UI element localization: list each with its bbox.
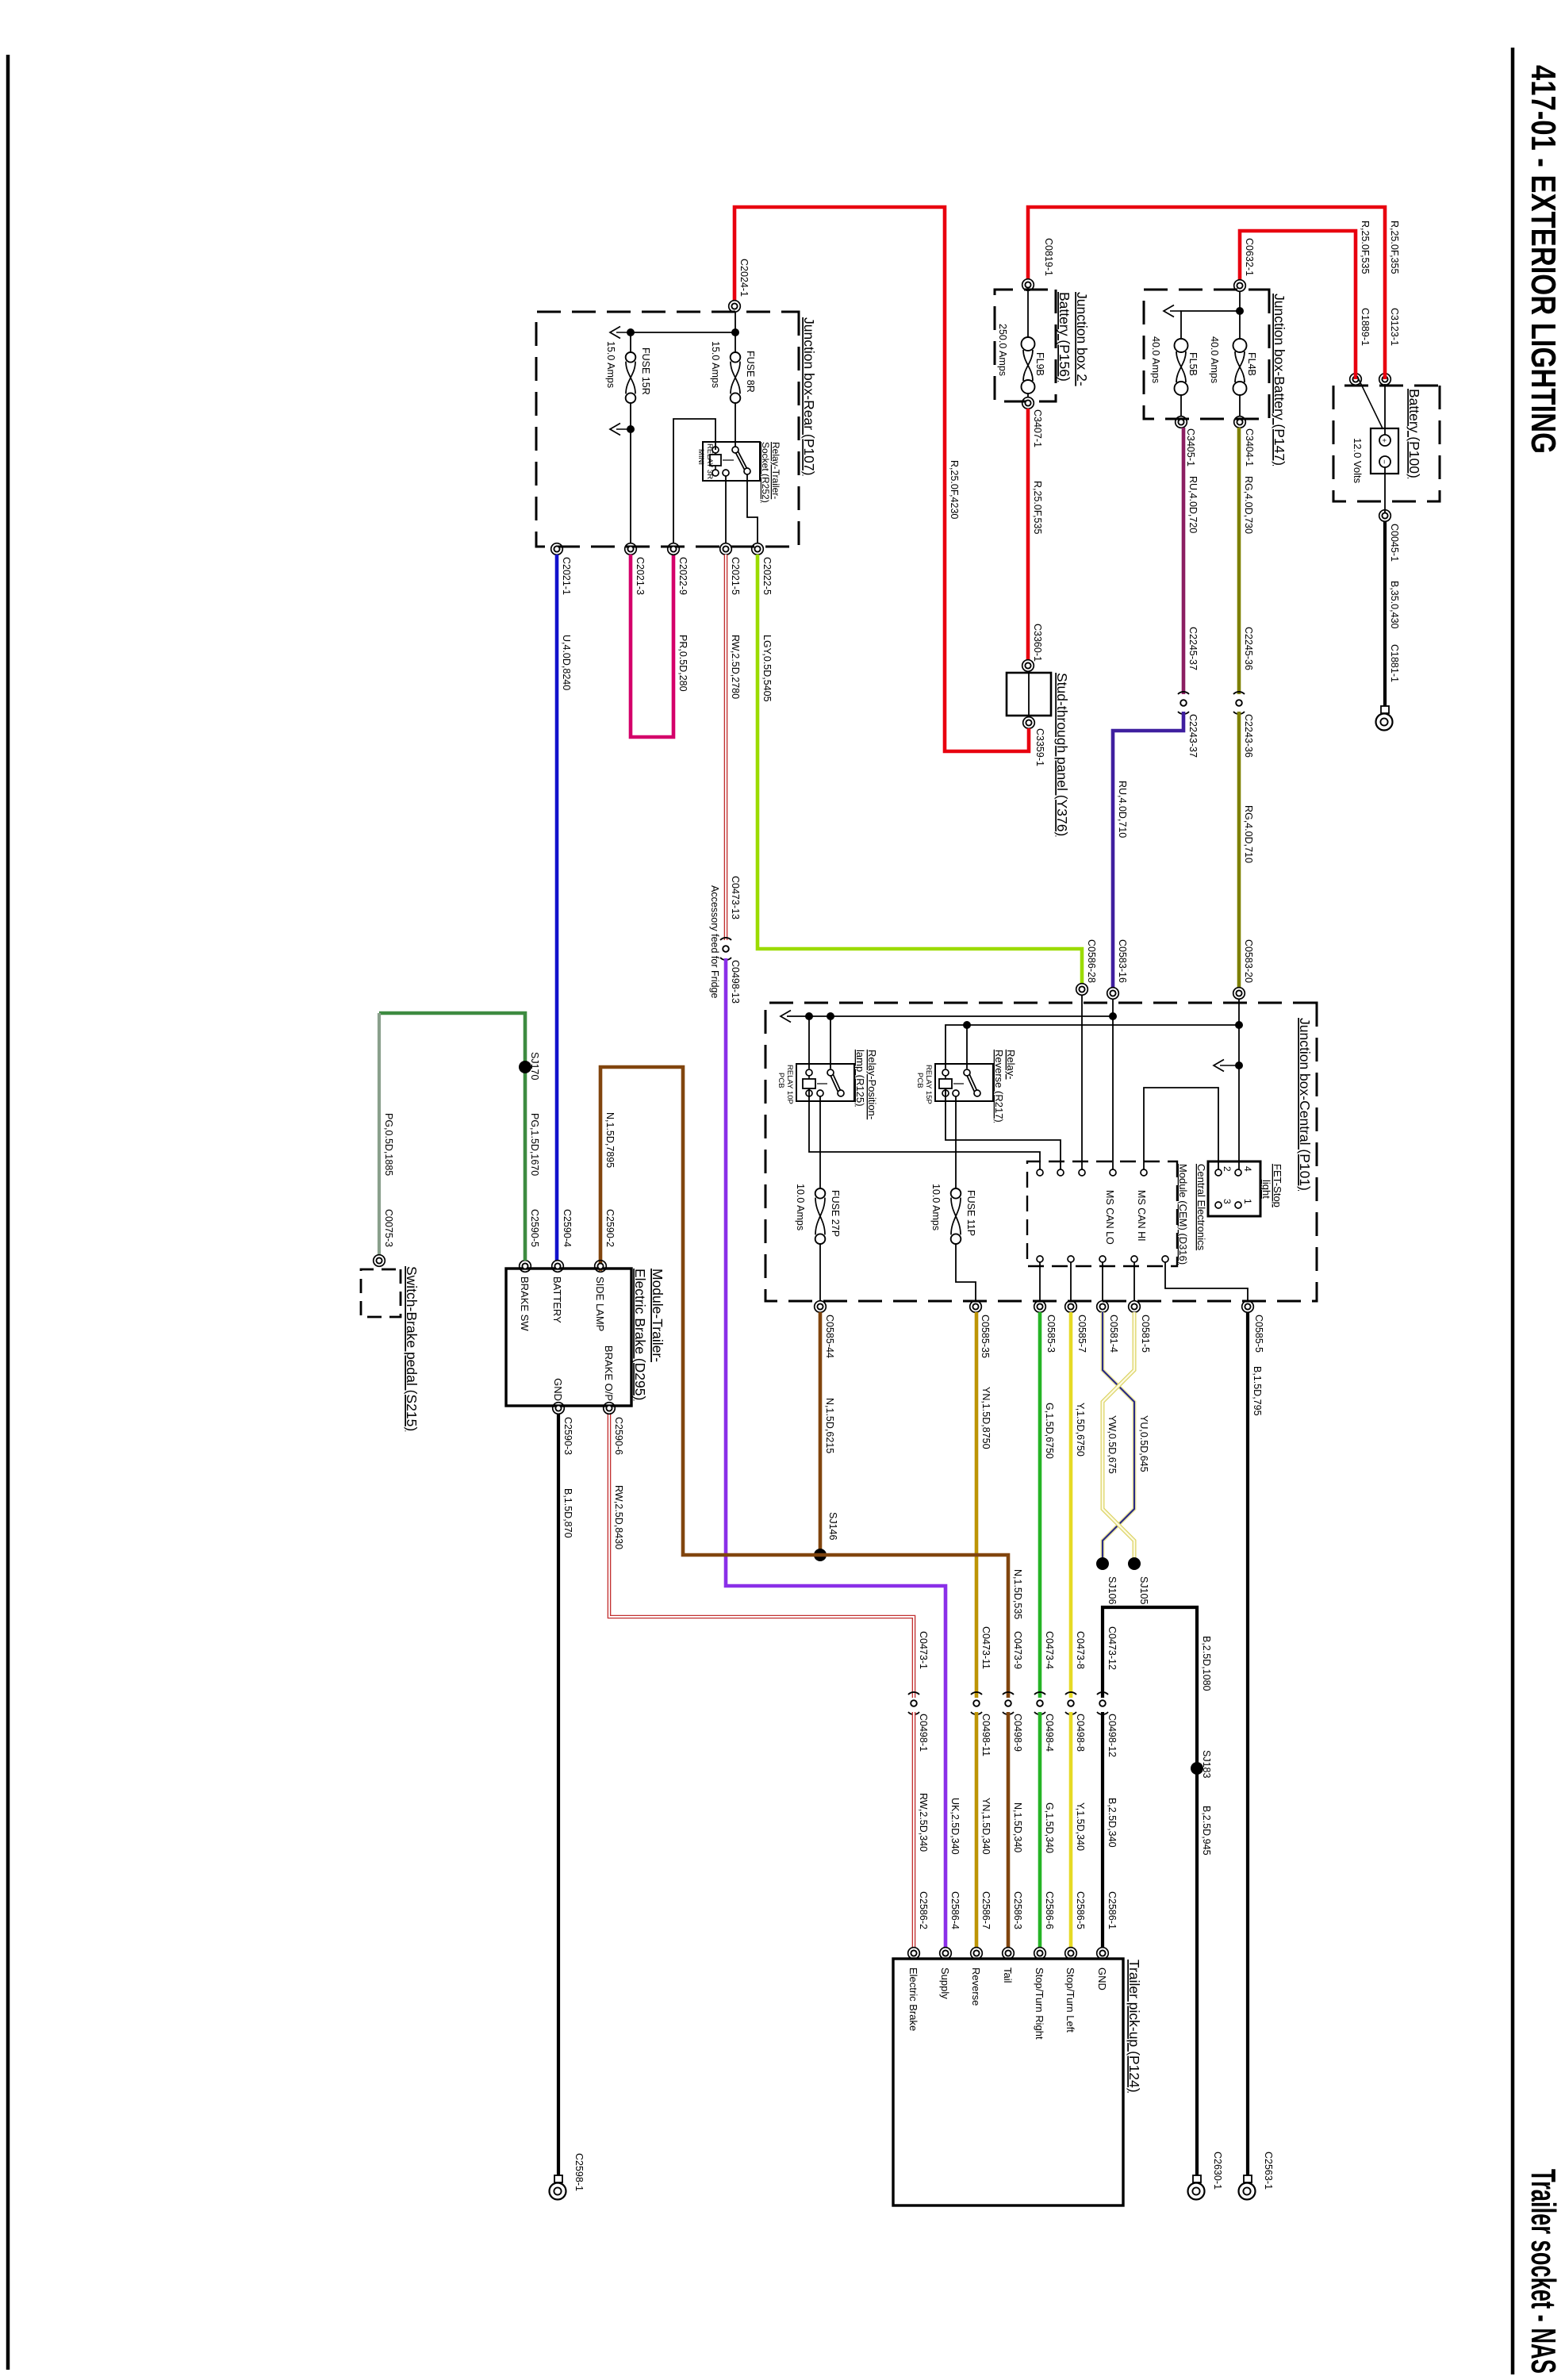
footer rule <box>6 55 10 2370</box>
wire RW,2.5D,340 <box>912 1712 916 1948</box>
fuse FUSE 27P <box>815 1188 826 1244</box>
label C0498-4 <box>1044 1714 1055 1752</box>
pin label GND <box>1096 1967 1108 1990</box>
label 40.0 Amps FL5B <box>1150 336 1161 383</box>
label 10.0 Amps fuse 27P <box>795 1184 806 1230</box>
svg-text:C0473-13: C0473-13 <box>730 876 741 919</box>
svg-text:MINI: MINI <box>696 449 705 465</box>
svg-text:C2590-5: C2590-5 <box>529 1209 540 1247</box>
label C2590-6 <box>613 1417 624 1455</box>
svg-text:PCB: PCB <box>915 1073 924 1088</box>
connector C2586-1 <box>1097 1948 1109 1960</box>
svg-text:C0583-16: C0583-16 <box>1117 939 1128 983</box>
connector C0585-35 <box>970 1301 982 1313</box>
label FUSE 27P <box>830 1190 841 1237</box>
svg-text:SJ183: SJ183 <box>1201 1750 1212 1778</box>
label C2022-9 <box>677 557 689 595</box>
label Y,1.5D,6750 <box>1075 1403 1086 1457</box>
label C0498-1 <box>918 1714 929 1752</box>
FET pin number 1 <box>1242 1199 1253 1204</box>
svg-text:Accessory feed for Fridge: Accessory feed for Fridge <box>709 885 720 998</box>
branch to FL5B <box>1181 311 1240 339</box>
inline connector C2245-36 C2243-36 <box>1233 692 1245 714</box>
svg-text:G,1.5D,6750: G,1.5D,6750 <box>1044 1403 1055 1459</box>
label FL4B <box>1246 352 1257 376</box>
svg-text:C2563-1: C2563-1 <box>1263 2152 1274 2190</box>
label C2024-1 <box>738 259 750 297</box>
svg-text:R,25.0F,355: R,25.0F,355 <box>1389 221 1400 274</box>
wire FUSE 11P to C0585-35 <box>956 1244 976 1301</box>
label lamp (R125) <box>854 1050 866 1107</box>
svg-text:MS CAN LO: MS CAN LO <box>1104 1190 1115 1245</box>
svg-text:FL9B: FL9B <box>1034 352 1045 376</box>
label C2586-1 <box>1107 1891 1118 1929</box>
label C0075-3 <box>383 1209 394 1247</box>
svg-text:C3359-1: C3359-1 <box>1034 728 1045 766</box>
relay R125 contact arm <box>830 1073 841 1092</box>
inline connector C0473-13 C0498-13 <box>720 938 731 960</box>
wire to C2021-3 <box>630 429 631 543</box>
label PG,1.5D,1670 <box>529 1113 540 1176</box>
wire FUSE 8R to relay R252 <box>735 403 736 447</box>
svg-text:417-01 - EXTERIOR LIGHTING: 417-01 - EXTERIOR LIGHTING <box>1524 65 1563 454</box>
connector C3360-1 <box>1022 660 1034 672</box>
svg-text:UK,2.5D,340: UK,2.5D,340 <box>949 1798 961 1855</box>
svg-text:BRAKE O/P: BRAKE O/P <box>603 1345 615 1401</box>
svg-text:C0473-12: C0473-12 <box>1107 1626 1118 1670</box>
wire Y,1.5D,340 <box>1069 1712 1073 1948</box>
connector C0585-3 <box>1034 1301 1046 1313</box>
label B,35.0,430 <box>1389 581 1400 629</box>
svg-text:Switch-Brake pedal (S215): Switch-Brake pedal (S215) <box>404 1266 420 1431</box>
svg-text:C2586-5: C2586-5 <box>1075 1891 1086 1929</box>
pin label Electric Brake <box>907 1967 919 2031</box>
svg-text:1: 1 <box>1242 1199 1253 1204</box>
arrow continuation after fuse 15R <box>610 424 631 436</box>
svg-text:FL4B: FL4B <box>1246 352 1257 376</box>
relay R252 pins <box>712 447 750 476</box>
svg-text:40.0 Amps: 40.0 Amps <box>1209 336 1220 383</box>
connector C3407-1 <box>1022 397 1034 409</box>
svg-text:RG,4.0D,730: RG,4.0D,730 <box>1243 476 1254 534</box>
svg-text:Battery (P156): Battery (P156) <box>1057 292 1072 382</box>
FET-Stop light box <box>1208 1161 1260 1216</box>
svg-text:Stop/Turn Right: Stop/Turn Right <box>1034 1967 1045 2040</box>
junction dot after fuse 15R <box>627 425 635 433</box>
connector C2586-4 <box>940 1948 952 1960</box>
svg-text:C2586-2: C2586-2 <box>918 1891 929 1929</box>
trailer pick-up P124 box <box>893 1959 1123 2205</box>
fuse FL5B <box>1175 339 1188 395</box>
svg-text:C2590-4: C2590-4 <box>562 1209 573 1247</box>
label U,4.0D,8240 <box>561 635 572 690</box>
label C0498-11 <box>980 1714 992 1756</box>
label C0498-13 <box>730 960 741 1004</box>
CEM bottom pins <box>1037 1256 1168 1262</box>
svg-text:YU,0.5D,645: YU,0.5D,645 <box>1138 1415 1149 1472</box>
label C3360-1 <box>1032 624 1043 662</box>
svg-text:C2024-1: C2024-1 <box>738 259 750 297</box>
svg-text:C0473-9: C0473-9 <box>1012 1631 1023 1669</box>
wire UK accessory feed <box>726 958 946 1948</box>
label 40.0 Amps FL4B <box>1209 336 1220 383</box>
svg-text:C2243-36: C2243-36 <box>1243 714 1254 758</box>
label FL5B <box>1187 352 1199 376</box>
junction box 2-Battery P156 box <box>995 290 1056 401</box>
svg-text:C2022-5: C2022-5 <box>761 557 773 595</box>
label R,25.0F,4230 <box>949 460 960 519</box>
label N,1.5D,7895 <box>604 1112 616 1168</box>
wire FL4B to C3404-1 <box>1239 395 1241 416</box>
svg-text:Module (CEM) (D316): Module (CEM) (D316) <box>1177 1164 1189 1265</box>
wire CEM to C0585-3 <box>1039 1262 1041 1301</box>
label FUSE 11P <box>965 1190 976 1236</box>
label B,1.5D,870 <box>562 1488 573 1538</box>
svg-text:C0498-8: C0498-8 <box>1075 1714 1086 1752</box>
relay R252 coil <box>710 455 734 466</box>
svg-text:RG,4.0D,710: RG,4.0D,710 <box>1243 805 1254 863</box>
svg-text:FET-Stop: FET-Stop <box>1272 1164 1283 1207</box>
FET pin number 3 <box>1222 1199 1233 1204</box>
label RU,4.0D,720 <box>1187 476 1199 533</box>
bus B vertical <box>946 1025 1239 1069</box>
svg-text:C0585-35: C0585-35 <box>980 1315 991 1358</box>
label C0583-16 <box>1117 939 1128 983</box>
svg-text:BATTERY: BATTERY <box>551 1276 563 1323</box>
page subtitle Trailer socket - NAS <box>1524 2169 1563 2374</box>
FET pin number 2 <box>1222 1166 1233 1172</box>
label C1889-1 <box>1360 308 1371 346</box>
wire C0583-20 to FET pin 4 <box>1238 999 1240 1169</box>
label 15.0 Amps fuse 8R <box>710 341 721 388</box>
label Battery (P156) <box>1057 292 1072 382</box>
svg-text:PG,1.5D,1670: PG,1.5D,1670 <box>529 1113 540 1176</box>
label C2590-4 <box>562 1209 573 1247</box>
label PCB R217 <box>915 1073 924 1088</box>
svg-text:C2590-6: C2590-6 <box>613 1417 624 1455</box>
pin label GND <box>552 1378 564 1401</box>
wire R,25.0F,535 to C0632-1 <box>1240 231 1356 379</box>
svg-text:C2243-37: C2243-37 <box>1187 714 1199 758</box>
label C0473-1 <box>918 1631 929 1669</box>
svg-text:C2598-1: C2598-1 <box>573 2153 585 2191</box>
svg-text:Supply: Supply <box>939 1967 951 1999</box>
relay R252 contact arm <box>735 450 748 471</box>
relay R252 box <box>703 442 760 481</box>
connector C3404-1 <box>1234 416 1246 428</box>
battery P100 box <box>1333 386 1440 501</box>
ground C2630-1 <box>1188 2175 1205 2200</box>
connector C2022-5 <box>752 543 764 555</box>
label SJ170 <box>529 1052 540 1080</box>
wire G,1.5D,340 <box>1038 1712 1042 1948</box>
connector C0585-44 <box>815 1301 827 1313</box>
svg-text:+: + <box>1379 438 1388 443</box>
label C2586-5 <box>1075 1891 1086 1929</box>
arrow continuation below FL5B junction <box>1164 305 1181 317</box>
label R,25.0F,535 (stud) <box>1032 481 1043 534</box>
label Accessory feed for Fridge <box>709 885 720 998</box>
wire bus A to R125 coil <box>808 1016 810 1069</box>
wire YW,0.5D,675 <box>1103 1312 1134 1560</box>
connector C0045-1 <box>1379 510 1391 522</box>
connector C3359-1 <box>1023 717 1035 729</box>
wire C0632-1 to FL4B <box>1239 291 1241 339</box>
connector C2586-5 <box>1065 1948 1077 1960</box>
svg-text:C2586-1: C2586-1 <box>1107 1891 1118 1929</box>
label YW,0.5D,675 <box>1107 1415 1118 1474</box>
wire PG,0.5D,1885 <box>378 1013 381 1255</box>
svg-text:FUSE 11P: FUSE 11P <box>965 1190 976 1236</box>
pin label BATTERY <box>551 1276 563 1323</box>
label RG,4.0D,710 <box>1243 805 1254 863</box>
svg-text:Socket (R252): Socket (R252) <box>760 442 771 503</box>
junction dot bus B to relay contact <box>963 1021 971 1029</box>
svg-text:C0473-4: C0473-4 <box>1044 1631 1055 1669</box>
svg-text:Trailer pick-up (P124): Trailer pick-up (P124) <box>1126 1960 1142 2093</box>
svg-text:C2586-6: C2586-6 <box>1044 1891 1055 1929</box>
svg-text:N,1.5D,7895: N,1.5D,7895 <box>604 1112 616 1168</box>
label RW,2.5D,2780 <box>730 635 741 699</box>
wire YN,1.5D,8750 <box>975 1312 979 1698</box>
svg-text:C0585-5: C0585-5 <box>1253 1315 1264 1353</box>
label SJ146 <box>827 1512 838 1540</box>
svg-text:C0586-28: C0586-28 <box>1086 939 1097 983</box>
label C0819-1 <box>1043 238 1054 276</box>
label LGY,0.5D,5405 <box>761 635 773 702</box>
svg-text:4: 4 <box>1242 1166 1253 1172</box>
svg-text:10.0 Amps: 10.0 Amps <box>930 1184 942 1230</box>
svg-text:C3405-1: C3405-1 <box>1185 428 1196 466</box>
connector C1889-1 <box>1350 374 1362 386</box>
svg-text:C2021-5: C2021-5 <box>730 557 741 595</box>
relay R125 coil <box>803 1079 827 1088</box>
junction dot bus B top <box>1235 1021 1243 1029</box>
wire Y,1.5D,6750 <box>1069 1312 1073 1698</box>
connector C2590-3 <box>553 1403 565 1415</box>
relay R217 box <box>935 1064 993 1101</box>
label Reverse (R217) <box>993 1050 1005 1123</box>
svg-text:Trailer socket - NAS: Trailer socket - NAS <box>1524 2169 1563 2374</box>
svg-text:Junction box-Central (P101): Junction box-Central (P101) <box>1297 1018 1313 1191</box>
label C2586-3 <box>1012 1891 1023 1929</box>
svg-text:B,1.5D,795: B,1.5D,795 <box>1252 1366 1263 1416</box>
pin label BRAKE SW <box>519 1276 531 1331</box>
wire R217 middle pin to FUSE 11P <box>955 1096 957 1188</box>
inline connector C0473-1 C0498-1 <box>908 1692 919 1714</box>
ground C2563-1 <box>1239 2175 1256 2200</box>
junction dot arrow stub <box>1235 1061 1243 1069</box>
label FET-Stop <box>1272 1164 1283 1207</box>
label RELAY 15P <box>924 1065 933 1104</box>
pin label Stop/Turn Right <box>1034 1967 1045 2040</box>
label C0045-1 <box>1389 524 1400 562</box>
label Module (CEM) (D316) <box>1177 1164 1189 1265</box>
label Junction box-Central (P101) <box>1297 1018 1313 1191</box>
battery negative link <box>1357 376 1383 428</box>
label FL9B <box>1034 352 1045 376</box>
wire C2024-1 to FUSE 8R <box>735 312 736 352</box>
label C2586-2 <box>918 1891 929 1929</box>
label Relay- <box>1005 1050 1017 1080</box>
svg-text:PR,0.5D,280: PR,0.5D,280 <box>677 635 689 692</box>
svg-text:SJ146: SJ146 <box>827 1512 838 1540</box>
wire U,4.0D,8240 <box>555 555 559 1261</box>
svg-text:C0045-1: C0045-1 <box>1389 524 1400 562</box>
svg-text:R,25.0F,535: R,25.0F,535 <box>1032 481 1043 534</box>
pin label BRAKE O/P <box>603 1345 615 1401</box>
label Trailer pick-up (P124) <box>1126 1960 1142 2093</box>
svg-text:SIDE LAMP: SIDE LAMP <box>594 1276 606 1331</box>
connector C0581-5 <box>1129 1301 1141 1313</box>
wire bus B to R217 contact <box>966 1025 968 1069</box>
label C2590-3 <box>562 1417 573 1455</box>
label Junction box-Battery (P147) <box>1272 294 1287 466</box>
connector C0585-5 <box>1242 1301 1254 1313</box>
label Central Electronics <box>1195 1164 1207 1251</box>
label RG,4.0D,730 <box>1243 476 1254 534</box>
svg-text:C1889-1: C1889-1 <box>1360 308 1371 346</box>
svg-text:FUSE 15R: FUSE 15R <box>640 347 651 395</box>
svg-text:Relay-Trailer-: Relay-Trailer- <box>770 442 781 499</box>
battery P100 label <box>1406 389 1422 478</box>
svg-text:Reverse (R217): Reverse (R217) <box>993 1050 1005 1123</box>
svg-text:Central Electronics: Central Electronics <box>1195 1164 1207 1251</box>
wire N,1.5D,6215 <box>819 1312 823 1555</box>
wire C0819-1 to FL9B <box>1027 290 1029 337</box>
label MS CAN HI <box>1136 1190 1147 1242</box>
label C2563-1 <box>1263 2152 1274 2190</box>
relay R217 pins <box>942 1069 980 1096</box>
FET pin number 4 <box>1242 1166 1253 1172</box>
label C3123-1 <box>1389 308 1400 346</box>
pin label Supply <box>939 1967 951 1999</box>
svg-text:R,25.0F,4230: R,25.0F,4230 <box>949 460 960 519</box>
svg-text:RELAY 10P: RELAY 10P <box>785 1065 794 1104</box>
svg-text:Module-Trailer-: Module-Trailer- <box>650 1269 666 1362</box>
label C0498-8 <box>1075 1714 1086 1752</box>
label N,1.5D,340 <box>1012 1802 1023 1852</box>
relay R252 coil wires <box>715 453 716 470</box>
ground C2598-1 <box>550 2175 566 2200</box>
svg-text:C2245-36: C2245-36 <box>1243 627 1254 670</box>
label UK,2.5D,340 <box>949 1798 961 1855</box>
label SJ106 <box>1107 1576 1118 1604</box>
label B,2.5D,340 <box>1107 1798 1118 1848</box>
svg-text:FL5B: FL5B <box>1187 352 1199 376</box>
connector C0583-20 <box>1233 988 1245 1000</box>
svg-text:C0581-5: C0581-5 <box>1140 1315 1151 1353</box>
label Y,1.5D,340 <box>1075 1802 1086 1851</box>
wire RG,4.0D,730 <box>1237 428 1241 694</box>
junction dot bus A to R125 contact <box>827 1012 834 1020</box>
svg-text:Reverse: Reverse <box>970 1967 982 2006</box>
label C2590-5 <box>529 1209 540 1247</box>
inline connector C0473-11 C0498-11 <box>971 1692 982 1714</box>
label PCB R125 <box>777 1073 785 1088</box>
label C0585-7 <box>1076 1315 1087 1353</box>
label C3404-1 <box>1244 428 1255 466</box>
splice SJ170 <box>519 1061 531 1073</box>
junction dot fuse 15R feed <box>627 328 635 336</box>
relay R217 coil <box>939 1079 964 1088</box>
label C0586-28 <box>1086 939 1097 983</box>
fuse FUSE 11P <box>951 1188 961 1244</box>
svg-text:RELAY 15P: RELAY 15P <box>924 1065 933 1104</box>
wire PR,0.5D,280 loop <box>631 555 673 737</box>
svg-text:light: light <box>1260 1180 1272 1199</box>
wire N,1.5D,7895 <box>600 1067 1008 1698</box>
svg-text:15.0 Amps: 15.0 Amps <box>605 341 616 388</box>
inline connector C0473-4 C0498-4 <box>1034 1692 1045 1714</box>
connector C2586-6 <box>1034 1948 1046 1960</box>
junction dot FL4B/FL5B <box>1236 307 1244 315</box>
label C0581-4 <box>1108 1315 1119 1353</box>
svg-text:C3360-1: C3360-1 <box>1032 624 1043 662</box>
svg-text:C0473-8: C0473-8 <box>1075 1631 1086 1669</box>
svg-text:C2630-1: C2630-1 <box>1212 2152 1223 2190</box>
svg-text:C0632-1: C0632-1 <box>1244 238 1255 276</box>
label RELAY 3R <box>705 443 714 479</box>
svg-text:250.0 Amps: 250.0 Amps <box>997 324 1008 376</box>
wire R125 middle pin to FUSE 27P <box>819 1096 821 1188</box>
wire YN,1.5D,340 <box>975 1712 979 1948</box>
svg-text:2: 2 <box>1222 1166 1233 1172</box>
bus A vertical <box>781 1011 1113 1023</box>
label Stud-through panel (Y376) <box>1054 673 1070 836</box>
label C0498-9 <box>1012 1714 1023 1752</box>
svg-text:Relay-: Relay- <box>1005 1050 1017 1080</box>
switch-brake pedal S215 box <box>361 1269 401 1317</box>
svg-text:Tail: Tail <box>1002 1967 1014 1983</box>
label C2245-37 <box>1187 627 1199 670</box>
module-trailer-electric brake D295 box <box>506 1269 631 1406</box>
svg-text:C1881-1: C1881-1 <box>1389 644 1400 682</box>
pin label Stop/Turn Left <box>1064 1967 1076 2033</box>
label YU,0.5D,645 <box>1138 1415 1149 1472</box>
inline connector C0473-12 C0498-12 <box>1097 1692 1108 1714</box>
svg-text:B,2.5D,340: B,2.5D,340 <box>1107 1798 1118 1848</box>
wire relay R252 middle pin to C2021-5 <box>725 476 727 543</box>
wire battery positive to C3123-1 <box>1384 384 1386 435</box>
label C0473-9 <box>1012 1631 1023 1669</box>
wire CEM to C0581-4 <box>1102 1262 1103 1301</box>
junction box-Battery P147 box <box>1144 290 1269 419</box>
wire RG,4.0D,710 <box>1237 712 1241 988</box>
wire C0586-28 to CEM <box>1081 995 1083 1169</box>
connector C2586-3 <box>1003 1948 1015 1960</box>
svg-text:Electric Brake (D295): Electric Brake (D295) <box>632 1269 648 1400</box>
label FUSE 8R <box>745 351 756 393</box>
svg-text:C0498-9: C0498-9 <box>1012 1714 1023 1752</box>
wire PG,1.5D,1670 <box>379 1013 525 1261</box>
junction dot bus A to R125 coil <box>805 1012 813 1020</box>
svg-text:C0473-11: C0473-11 <box>980 1626 992 1669</box>
svg-text:Battery (P100): Battery (P100) <box>1406 389 1422 478</box>
label C3407-1 <box>1032 409 1043 447</box>
label C0632-1 <box>1244 238 1255 276</box>
label 250.0 Amps <box>997 324 1008 376</box>
junction dot fuse 8R feed <box>731 328 739 336</box>
label RELAY 10P <box>785 1065 794 1104</box>
wire CEM to FET pin 2 <box>1144 1088 1218 1173</box>
wire RW,2.5D,2780 <box>724 555 728 940</box>
svg-text:C0583-20: C0583-20 <box>1243 939 1254 983</box>
label Junction box-Rear (P107) <box>801 317 817 475</box>
relay R125 pins <box>806 1069 844 1096</box>
svg-text:BRAKE SW: BRAKE SW <box>519 1276 531 1331</box>
svg-text:C3123-1: C3123-1 <box>1389 308 1400 346</box>
